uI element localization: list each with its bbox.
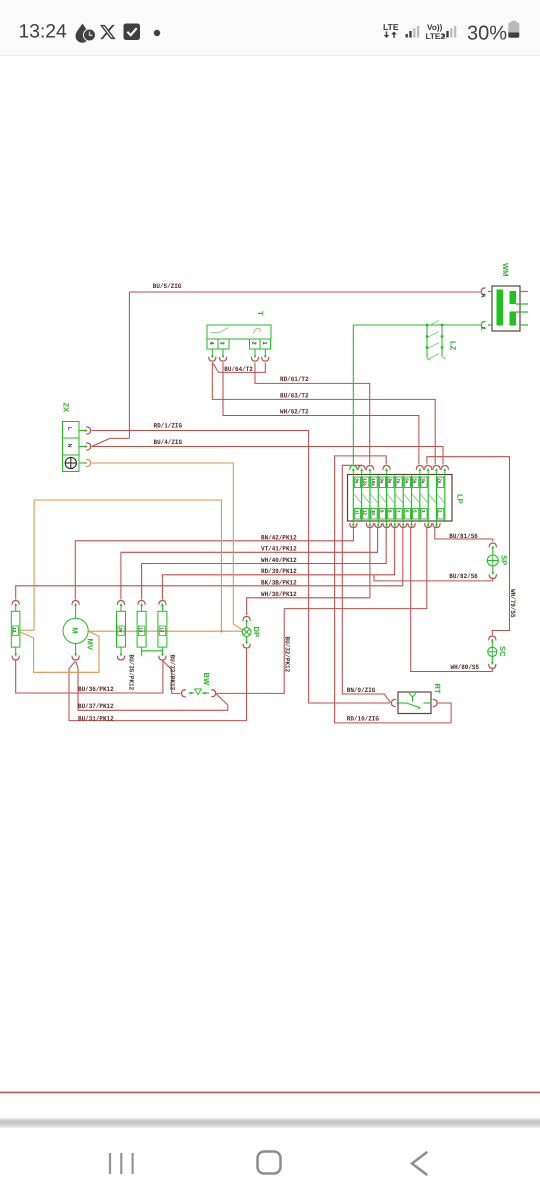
svg-text:N: N [480,294,486,298]
svg-text:VT/41/PK12: VT/41/PK12 [261,546,297,553]
pin L of WM [481,321,485,328]
svg-text:2a: 2a [438,478,443,483]
connector SC top [489,636,496,640]
component LZ interference filter / switch bank [426,320,446,360]
component DP [242,619,251,644]
LP slot 3 bottom connector [369,521,371,527]
svg-text:T: T [256,311,265,316]
LP cell 8 bottom number box 5 [413,509,419,520]
LP cell 9 bottom number box 3 [421,509,427,520]
LP cell 11 switch blade [437,494,444,503]
LP cell 4 switch blade [379,494,386,503]
wire BU/5/ZIG horizontal jog [110,437,129,439]
svg-text:RD/1/ZIG: RD/1/ZIG [154,422,183,429]
LP cell 7 bottom number box 6 [404,509,410,520]
wire RD/10/ZIG net: LP slot5 top riser [335,456,452,723]
connector comp3 bottom [161,654,164,657]
LP cell 4 top number box 9a [379,477,385,488]
connector MV bottom [72,656,79,660]
wire WH/79/S5 LP slot10 top to SC top [427,457,510,635]
svg-text:BU/82/S6: BU/82/S6 [449,573,478,580]
wire BU/32/PK12 LP slot10 bottom to BW right side [217,528,427,694]
LP cell 5 switch blade [387,494,394,503]
svg-text:7a: 7a [396,478,401,483]
LP cell 7 top number box 6a [404,477,410,488]
svg-text:5a: 5a [413,478,418,483]
LP cell 2 bottom number box 12 [363,509,369,520]
LP cell 5 bottom number box 8 [388,509,394,520]
svg-text:12: 12 [363,510,368,515]
svg-text:1: 1 [261,342,267,345]
LP cell 8 switch blade [412,494,419,503]
wire BU/5/ZIG net: ZX pin N diagonal to riser [92,438,111,446]
svg-text:L: L [480,327,486,331]
LP slot 11 bottom connector [436,521,438,527]
LP cell 1 switch blade [354,494,361,503]
svg-text:3a: 3a [421,478,426,483]
wire BU/64/T2 jumper T pin 4 to T pin 1 [213,363,265,373]
LP slot 12 top connector [444,469,446,475]
component valve comp1 [117,603,126,647]
LP slot 2 top connector [361,469,363,475]
svg-text:LP: LP [456,494,465,504]
LP cell 1 bottom number box 11 [354,509,360,520]
wire WH/40/PK12 LP slot5 bottom to valve comp2 top [142,528,387,600]
connector SC bottom [489,664,496,668]
svg-text:2V: 2V [118,627,123,632]
LP slot 5 pin rail [386,476,388,521]
LP cell 2 switch blade [362,494,369,503]
LP slot 4 pin rail [377,476,379,521]
connector SP bottom [489,574,496,578]
LP cell 9 top number box 3a [421,477,427,488]
svg-text:3: 3 [219,342,225,345]
LP cell 6 bottom number box 7 [396,509,402,520]
svg-text:13: 13 [12,627,17,632]
wire BU/31/PK12 motor MV bottom to DP bottom [69,649,247,721]
wire orange ZX earth to DP [92,463,243,630]
svg-text:BU/36/PK12: BU/36/PK12 [78,686,114,693]
svg-text:WH/30/PK12: WH/30/PK12 [261,591,297,598]
notification overflow dot [154,30,160,36]
nav recent apps button [110,1153,133,1174]
svg-text:WH/80/S5: WH/80/S5 [451,664,480,671]
connector R top [12,601,19,605]
LP cell 3 bottom number box 10 [371,509,377,520]
component valve comp2 [137,603,146,647]
junction orange at x=221.4 [220,630,223,633]
wire BK/3B/PK12 LP slot7 bottom to heater R top [16,528,403,600]
connector DP bottom [243,644,250,648]
svg-text:BU/5/ZIG: BU/5/ZIG [153,283,182,290]
svg-text:10a: 10a [371,478,376,486]
svg-text:BU/81/S6: BU/81/S6 [449,533,478,540]
LP slot 7 pin rail [402,476,404,521]
connector BW left [182,690,186,697]
connector SP top [489,543,496,547]
LP slot 1 pin rail [352,476,354,521]
svg-text:RD/39/PK12: RD/39/PK12 [261,568,297,575]
wire BU/37/PK12 BW right to motor MV bottom [76,662,228,711]
component valve comp3 [158,603,167,647]
LP cell 11 top number box 2a [438,477,444,488]
wire orange lower loop to motor [34,631,99,672]
LP slot 11 top connector [436,469,438,475]
connector comp1 bottom [120,647,122,655]
svg-text:30%: 30% [467,23,507,45]
component RT thermostat [397,692,432,714]
LP slot 9 top connector [419,469,421,475]
LP slot 3 pin rail [369,476,371,521]
LP slot 1 top connector [352,469,354,475]
gray shadow band [0,1117,540,1128]
svg-text:9a: 9a [379,478,384,483]
connector RT left [391,699,395,706]
svg-text:BK/3B/PK12: BK/3B/PK12 [261,579,297,586]
wire VT/41/PK12 LP slot4 bottom to valve comp1 top [121,528,378,600]
LP slot 4 bottom connector [377,521,379,527]
svg-text:BU/63/T2: BU/63/T2 [280,393,309,400]
LP cell 2 top number box 12a [363,477,369,488]
connector comp3 top [159,601,166,605]
wire RD/39/PK12 LP slot6 bottom to valve comp3 top [162,528,394,600]
LTE up/down arrows [384,32,397,39]
svg-text:6a: 6a [404,478,409,483]
svg-text:BU/32/PK12: BU/32/PK12 [284,637,291,673]
wire WH/80/S5 LP slot8 bottom to SC bottom [411,528,493,672]
LP slot 5 top connector [386,469,388,475]
battery icon [508,21,519,38]
LP cell 10 switch blade [429,494,436,503]
svg-text:M: M [71,627,80,633]
svg-text:ZX: ZX [62,403,71,413]
component SP [487,546,498,575]
LP slot 10 pin rail [427,476,429,521]
svg-text:L: L [66,427,72,431]
svg-text:WH/62/T2: WH/62/T2 [280,409,309,416]
component T terminal block [207,325,271,349]
svg-text:BW: BW [202,673,211,686]
svg-text:BN/9/ZIG: BN/9/ZIG [347,687,376,694]
wire orange motor to DP horizontal [89,630,243,632]
svg-text:9a: 9a [354,478,359,483]
LP cell 3 switch blade [371,494,378,503]
svg-text:Vo)): Vo)) [427,23,443,32]
svg-text:12a: 12a [363,478,368,486]
svg-text:13: 13 [159,627,164,632]
wire green tie comp2-comp3 bottoms [141,647,143,656]
svg-text:BN/42/PK12: BN/42/PK12 [261,534,297,541]
svg-text:2: 2 [251,342,257,345]
component ZX mains inlet [63,422,80,472]
component MV motor [63,603,88,656]
LP slot 8 pin rail [411,476,413,521]
component LP main board connector [348,475,453,522]
svg-text:SC: SC [498,646,507,657]
svg-text:13: 13 [139,627,144,632]
ground pin of ZX [65,457,76,468]
LP slot 3 top connector [369,469,371,475]
signal bars SIM2 [443,26,457,38]
svg-text:RD/10/ZIG: RD/10/ZIG [347,716,379,723]
LP slot 6 bottom connector [394,521,396,527]
svg-text:LZ: LZ [449,341,458,351]
wire green mains from LP slot1 through LZ to WM pin L [353,324,480,326]
LP slot 8 bottom connector [411,521,413,527]
component WM (top right connector block) [488,286,528,331]
wire BU/63/T2 from T pin 4 to LP slot 11 [212,363,435,465]
pin N of WM [481,288,485,295]
LP cell 6 top number box 7a [396,477,402,488]
LP slot 9 pin rail [419,476,421,521]
connector comp2 top [138,601,145,605]
svg-text:LTE2: LTE2 [426,32,446,41]
LP slot 6 pin rail [394,476,396,521]
LP cell 8 top number box 5a [413,477,419,488]
svg-text:8a: 8a [388,478,393,483]
LP slot 12 pin rail [444,476,446,521]
wire BU/36/PK12 heater R bottom to comp3 bottom [16,661,163,694]
svg-text:DP: DP [252,627,261,638]
notification icon X app [100,25,116,39]
svg-text:10: 10 [371,510,376,515]
svg-text:RD/61/T2: RD/61/T2 [280,376,309,383]
page bottom red line [0,1092,540,1094]
wire orange heater diagonal [20,632,34,638]
notification icon water drop with clock [76,24,96,43]
LP slot 5 bottom connector [386,521,388,527]
status bar [0,0,540,56]
svg-text:LTE: LTE [383,22,399,32]
LP cell 9 switch blade [420,494,427,503]
wire green LP slot1 riser [352,325,354,465]
wire BN/9/ZIG LP slot2 top to RT left [342,465,390,703]
LP slot 2 pin rail [361,476,363,521]
svg-text:BU/35/PK12: BU/35/PK12 [127,655,134,691]
navigation bar [110,1152,427,1175]
LP cell 4 bottom number box 9 [379,509,385,520]
svg-text:WH/40/PK12: WH/40/PK12 [261,557,297,564]
LP slot 10 top connector [427,469,429,475]
svg-text:BU/37/PK12: BU/37/PK12 [78,703,114,710]
component R heater (left) [11,603,20,656]
notification icon checkbox [124,24,141,41]
svg-text:11: 11 [354,510,359,515]
wire RD/61/T2 from T pin 2 to LP slot 3 [255,363,370,465]
LP slot 11 pin rail [436,476,438,521]
wire WH/62/T2 from T pin 3 to LP slot 9 [223,363,419,465]
wire BN/42/PK12 LP slot1 bottom to motor MV top [75,528,353,600]
LP cell 1 top number box 9a [354,477,360,488]
svg-text:N: N [66,444,72,448]
LP cell 6 switch blade [396,494,403,503]
svg-text:BU/64/T2: BU/64/T2 [224,366,253,373]
svg-text:13:24: 13:24 [19,22,68,43]
connector comp1 top [117,601,124,605]
nav back button [412,1153,427,1175]
svg-text:WM: WM [501,263,510,277]
component BW door interlock [189,689,210,695]
nav home button [258,1152,281,1174]
LP slot 1 bottom connector [352,521,354,527]
LP cell 5 top number box 8a [388,477,394,488]
svg-text:BU/33/PK12: BU/33/PK12 [169,655,176,691]
wire RD/1/ZIG from ZX pin L [92,431,391,704]
LP slot 7 bottom connector [402,521,404,527]
LP slot 10 bottom connector [427,521,429,527]
wire orange loop upper horizontal y=500 [34,500,221,631]
wire BU/81/S6 LP slot11 bottom to SP top [435,528,493,542]
svg-text:BU/4/ZIG: BU/4/ZIG [154,439,183,446]
wire BU/82/S6 branch from RD/39 line to SP bottom [374,575,493,581]
connector BW right [211,690,215,697]
wire orange tap into heater R middle [20,629,35,631]
connector RT right [433,699,437,706]
connector MV top [72,601,79,605]
LP cell 7 switch blade [404,494,411,503]
wire comp3 bottom to BW left side [163,661,181,693]
svg-text:BU/31/PK12: BU/31/PK12 [78,715,114,722]
connector R bottom [12,656,19,660]
wire BU/5/ZIG top run to WM pin N [129,291,480,293]
component SC [488,639,497,665]
svg-text:WH/79/S5: WH/79/S5 [509,589,516,618]
wire BU/4/ZIG from ZX pin N to LP slot 12 [92,447,444,465]
LP cell 11 bottom number box 2 [438,509,444,520]
connector DP top [243,617,250,621]
svg-text:MV: MV [86,639,95,651]
svg-text:RT: RT [433,684,442,694]
LP cell 3 top number box 10a [371,477,377,488]
wire BU/5/ZIG riser x=129.4 [128,292,130,438]
signal bars SIM1 [406,26,420,38]
wire WH/30/PK12 LP slot3 bottom to DP top [247,528,370,616]
svg-text:SP: SP [500,555,509,565]
